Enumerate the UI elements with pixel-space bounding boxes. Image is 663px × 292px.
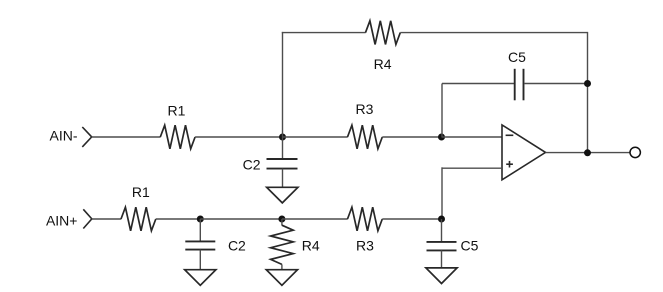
node B junction bbox=[438, 134, 445, 141]
wire right rail bbox=[587, 32, 589, 153]
svg-text:C5: C5 bbox=[508, 49, 526, 65]
svg-text:AIN+: AIN+ bbox=[46, 212, 78, 228]
svg-text:AIN-: AIN- bbox=[50, 128, 78, 144]
resistor R3 (AIN- branch) bbox=[348, 125, 383, 149]
capacitor C2 (AIN+ branch) bbox=[185, 241, 215, 249]
output terminal bbox=[630, 147, 640, 157]
ground (AIN- C2) bbox=[267, 187, 298, 203]
svg-text:R4: R4 bbox=[302, 237, 320, 253]
input terminal AIN+ bbox=[83, 209, 92, 228]
node output junction bbox=[584, 149, 591, 156]
resistor R3 (AIN+ branch) bbox=[348, 207, 383, 231]
wire top feedback right segment bbox=[400, 32, 587, 34]
svg-text:R1: R1 bbox=[168, 102, 186, 118]
wire R3 to node E bbox=[382, 218, 441, 220]
resistor R1 (AIN+ branch) bbox=[121, 207, 156, 231]
ground (AIN+ C5) bbox=[426, 268, 457, 284]
wire corner down to node E bbox=[441, 167, 443, 219]
ground (AIN+ R4) bbox=[266, 270, 297, 286]
wire node C to C2 bbox=[199, 219, 201, 241]
node D junction bbox=[278, 216, 285, 223]
node C junction bbox=[197, 216, 204, 223]
wire C5 feedback left segment bbox=[442, 83, 514, 85]
wire node C to node D bbox=[200, 218, 282, 220]
wire top feedback left segment bbox=[282, 32, 366, 34]
capacitor C5 (AIN+ branch) bbox=[427, 242, 457, 251]
wire C2 to ground bbox=[282, 169, 284, 188]
non-inverting input marker bbox=[506, 161, 513, 168]
wire node E to C5 bbox=[441, 219, 443, 242]
wire node B to op-amp inverting input bbox=[442, 136, 503, 138]
wire C5 feedback right segment bbox=[524, 83, 588, 85]
op-amp U1 bbox=[502, 125, 546, 180]
wire R1 to node A bbox=[195, 136, 282, 138]
wire AIN+ to R1 bbox=[92, 218, 121, 220]
node C5 feedback / rail junction bbox=[584, 80, 591, 87]
wire node A up to top feedback bbox=[282, 32, 284, 137]
node A junction bbox=[279, 134, 286, 141]
svg-text:R3: R3 bbox=[356, 101, 374, 117]
wire node A to C2 bbox=[282, 137, 284, 159]
capacitor C2 (AIN- branch) bbox=[267, 159, 298, 169]
wire R3 to node B bbox=[382, 136, 441, 138]
wire C5 feedback down to node B bbox=[441, 84, 443, 138]
wire C2 to ground (AIN+ branch) bbox=[199, 250, 201, 270]
svg-text:C5: C5 bbox=[461, 237, 479, 253]
ground (AIN+ C2) bbox=[185, 270, 216, 286]
node E junction bbox=[438, 216, 445, 223]
svg-text:C2: C2 bbox=[243, 157, 261, 173]
wire op-amp output bbox=[546, 152, 631, 154]
wire R4 to ground bbox=[281, 264, 283, 269]
wire node A to R3 bbox=[283, 136, 348, 138]
wire C5 to ground (AIN+ branch) bbox=[441, 250, 443, 268]
resistor R4 (AIN+ shunt) bbox=[271, 225, 294, 264]
inverting input marker bbox=[506, 134, 514, 136]
svg-text:R3: R3 bbox=[356, 237, 374, 253]
wire node D to R3 bbox=[282, 218, 348, 220]
resistor R1 (AIN- branch) bbox=[160, 125, 195, 149]
wire R1 to node C bbox=[156, 218, 201, 220]
wire node D to R4 bbox=[281, 219, 283, 225]
capacitor C5 (feedback) bbox=[515, 69, 524, 101]
resistor R4 (feedback) bbox=[366, 21, 401, 45]
svg-text:R1: R1 bbox=[132, 184, 150, 200]
svg-text:C2: C2 bbox=[228, 237, 246, 253]
wire AIN- to R1 bbox=[92, 136, 161, 138]
input terminal AIN- bbox=[82, 127, 91, 147]
wire op-amp non-inverting input to corner bbox=[442, 167, 502, 169]
svg-text:R4: R4 bbox=[374, 56, 392, 72]
